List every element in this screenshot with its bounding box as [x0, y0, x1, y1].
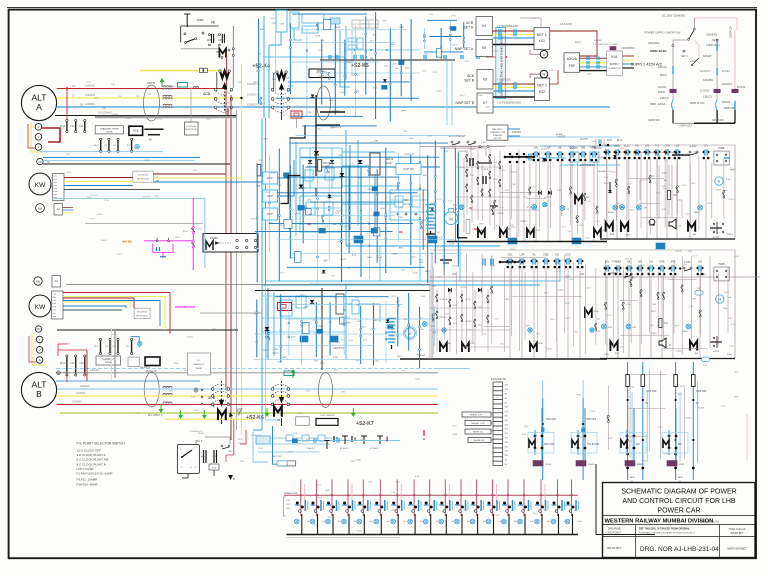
- terminal tick B: [53, 299, 57, 301]
- svg-text:PS4: PS4: [136, 413, 140, 415]
- blue branch down: [379, 246, 381, 281]
- svg-text:M: M: [449, 217, 453, 222]
- terminal strip B: [52, 291, 64, 319]
- svg-text:1B2: 1B2: [505, 442, 508, 444]
- wire: [280, 294, 282, 363]
- svg-text:A-5B: A-5B: [735, 255, 740, 258]
- blue h top: [500, 136, 620, 138]
- svg-text:320A: 320A: [256, 184, 261, 187]
- top black bar: [320, 111, 345, 113]
- lamp column 18: [571, 480, 573, 517]
- bottom row baseline 2: [287, 537, 401, 539]
- aux contact small l2: [449, 299, 451, 301]
- svg-text:H B C FUSE: H B C FUSE: [77, 467, 94, 471]
- svg-text:320A0P: 320A0P: [703, 55, 712, 58]
- svg-text:6D6Q: 6D6Q: [157, 119, 162, 121]
- meter loop yellow B: [32, 334, 46, 365]
- rladder1 rail: [600, 144, 735, 146]
- svg-text:1206201: 1206201: [85, 93, 96, 97]
- riser bundle yellow wire: [241, 64, 243, 435]
- top cluster connectors: [423, 55, 425, 59]
- svg-text:2F18: 2F18: [331, 275, 335, 277]
- wire: [292, 13, 367, 15]
- switch blade: [186, 39, 196, 43]
- svg-text:120601: 120601: [730, 169, 736, 171]
- svg-text:A NEXT: A NEXT: [557, 136, 566, 139]
- svg-text:1206: 1206: [691, 183, 695, 185]
- connector sym c: [498, 82, 500, 86]
- svg-text:12B4: 12B4: [630, 209, 634, 211]
- branch3 contact: [734, 101, 736, 110]
- wire to branches: [673, 40, 689, 45]
- svg-text:V: V: [38, 125, 40, 129]
- svg-text:12-K1: 12-K1: [126, 118, 131, 120]
- motor circle Tm1: [716, 295, 724, 303]
- control hwire: [526, 197, 546, 199]
- mini table grid: [352, 20, 378, 28]
- svg-text:V: V: [39, 348, 41, 352]
- rladder2 drop extra: [699, 275, 701, 359]
- inverter box 1: [256, 436, 270, 444]
- svg-text:3 B2: 3 B2: [286, 508, 290, 510]
- svg-text:VE: VE: [211, 21, 215, 25]
- breaker ACB-A1 W coil: [220, 71, 229, 78]
- svg-text:PS4: PS4: [568, 231, 572, 233]
- svg-text:21B1: 21B1: [338, 155, 342, 157]
- control hwire: [620, 334, 669, 336]
- svg-text:1206: 1206: [224, 92, 228, 94]
- wire: [334, 24, 336, 115]
- svg-text:1206303: 1206303: [76, 392, 86, 395]
- terminal: [301, 324, 303, 326]
- svg-text:E5IC: E5IC: [423, 175, 428, 177]
- lamp column 14: [507, 480, 509, 517]
- purple supply wire: [693, 18, 695, 30]
- svg-text:WD.PC.BCT: WD.PC.BCT: [731, 533, 744, 535]
- svg-text:ACB: ACB: [208, 396, 216, 400]
- blue module box b: [302, 26, 318, 33]
- speaker wires: [658, 165, 660, 219]
- blue filled sq 2: [428, 236, 437, 243]
- control wire: [622, 266, 624, 353]
- svg-text:21KT: 21KT: [399, 27, 405, 29]
- svg-text:21B1: 21B1: [557, 190, 561, 192]
- aux contact small l2: [487, 295, 489, 297]
- svg-text:320A: 320A: [174, 362, 179, 365]
- riser bundle gray wire: [236, 110, 238, 430]
- svg-text:ELB: ELB: [615, 353, 620, 355]
- breaker ACB-B2 pole 2: [271, 395, 274, 398]
- svg-text:E5IC: E5IC: [404, 319, 409, 321]
- relay TRA CON: [541, 408, 543, 460]
- svg-text:6D6Q: 6D6Q: [436, 199, 441, 201]
- svg-text:A-5B: A-5B: [285, 492, 290, 495]
- component box: [374, 228, 380, 236]
- wire: [457, 152, 459, 266]
- ladder2 black link: [500, 261, 520, 263]
- svg-text:PS4: PS4: [536, 333, 540, 335]
- wire: [365, 16, 367, 94]
- wattmeter KW B: [29, 295, 51, 317]
- fuse row2 B f1: [99, 338, 101, 340]
- control wire: [463, 158, 465, 233]
- estop contacts: [451, 141, 453, 143]
- svg-text:21B1: 21B1: [565, 318, 569, 320]
- svg-text:STARTER: STARTER: [493, 134, 503, 137]
- engine tb cell: [493, 417, 503, 421]
- svg-text:120601: 120601: [250, 219, 256, 221]
- terminal: [397, 318, 399, 320]
- svg-text:3B2Q: 3B2Q: [627, 440, 632, 442]
- blue wires upper right: [540, 145, 620, 147]
- aux contact small l2: [449, 317, 451, 319]
- svg-text:K2BC: K2BC: [347, 244, 353, 246]
- wire: [287, 266, 425, 268]
- aux contact: [616, 179, 618, 181]
- control wire: [549, 161, 551, 229]
- rladder1 baseline: [600, 238, 735, 240]
- svg-text:E STOP RESET: E STOP RESET: [449, 136, 466, 138]
- svg-text:12B4: 12B4: [496, 515, 500, 517]
- HIDB box 2: [714, 267, 729, 281]
- breaker ACB-A1 side wire: [216, 72, 218, 89]
- svg-text:CFB: CFB: [212, 456, 217, 458]
- top blue hwire: [264, 56, 345, 58]
- wire: [269, 155, 271, 252]
- svg-text:A-5B: A-5B: [281, 114, 286, 117]
- svg-text:12B4: 12B4: [67, 172, 71, 174]
- svg-text:1D11: 1D11: [607, 315, 611, 317]
- top blue wire 1: [269, 32, 281, 118]
- svg-text:MMB: MMB: [453, 434, 458, 436]
- blue filled sq 3: [508, 238, 517, 244]
- svg-text:60KVA: 60KVA: [567, 57, 578, 61]
- control wire: [560, 162, 562, 217]
- aux contact small: [477, 161, 479, 163]
- engine tb cell: [493, 435, 503, 439]
- terminal tick: [54, 181, 58, 183]
- control wire: [697, 382, 699, 463]
- control wire: [518, 149, 520, 237]
- coil LOP l1: [527, 229, 534, 238]
- terminal: [355, 74, 357, 76]
- red excl mark: [423, 430, 425, 436]
- svg-text:PS1 2: PS1 2: [297, 413, 303, 415]
- svg-text:6D6Q: 6D6Q: [460, 95, 465, 97]
- engine tb cell: [493, 395, 503, 399]
- svg-text:MMB 12 K04: MMB 12 K04: [690, 102, 705, 105]
- switch contact a: [184, 33, 186, 35]
- terminal: [343, 309, 345, 311]
- svg-text:1CACB: 1CACB: [355, 359, 362, 362]
- svg-text:BATT 110V: BATT 110V: [272, 455, 282, 458]
- svg-text:PB2: PB2: [216, 51, 221, 54]
- svg-text:WORTSCHOJBCT: WORTSCHOJBCT: [727, 549, 747, 551]
- wire: [373, 303, 375, 365]
- svg-text:ENGINE OFF: ENGINE OFF: [473, 440, 485, 442]
- trb wires: [542, 380, 544, 398]
- terminal: [266, 332, 268, 334]
- red elbow thick: [42, 128, 60, 142]
- green arrow dn 3: [266, 408, 268, 413]
- wire: [440, 28, 442, 59]
- control wire: [649, 157, 651, 235]
- svg-text:6 O CLOCK PLANT A/B: 6 O CLOCK PLANT A/B: [77, 458, 109, 462]
- mid wire: [694, 40, 699, 58]
- control wire: [519, 258, 521, 351]
- svg-text:PS4: PS4: [148, 94, 152, 96]
- engine tb cell: [493, 382, 503, 386]
- engine tb cell: [493, 444, 503, 448]
- control wire: [605, 260, 607, 345]
- svg-text:1B2: 1B2: [505, 385, 508, 387]
- mid rail wire right: [430, 276, 760, 278]
- svg-text:st OFF: st OFF: [683, 261, 691, 264]
- meter V b2: [36, 347, 43, 354]
- terminal: [449, 34, 451, 36]
- svg-text:1CACB: 1CACB: [675, 250, 682, 253]
- svg-text:1CACB: 1CACB: [698, 406, 705, 409]
- svg-text:WPP: WPP: [267, 195, 273, 198]
- mid rail black seg: [255, 290, 430, 292]
- coil terminal dots: [221, 56, 223, 58]
- svg-text:CHDB 12-K1: CHDB 12-K1: [706, 44, 720, 47]
- svg-text:2CP: 2CP: [383, 21, 388, 23]
- control wire: [648, 370, 650, 452]
- svg-text:+ 10 FK20/25/52-A1M: + 10 FK20/25/52-A1M: [497, 102, 520, 105]
- title block column divider left: [635, 525, 637, 558]
- svg-text:PS4: PS4: [429, 14, 433, 16]
- terminal tick: [54, 194, 58, 196]
- svg-text:A-5B: A-5B: [415, 475, 420, 478]
- svg-text:SUPPLY: SUPPLY: [609, 62, 619, 66]
- aux contact small l2: [436, 311, 438, 313]
- wire bundle right of psu: [335, 72, 420, 74]
- diode: [322, 270, 326, 273]
- wire k4-net blue: [493, 37, 535, 39]
- control wire: [664, 157, 666, 227]
- svg-text:Q: Q: [190, 467, 192, 469]
- wire: [321, 40, 323, 105]
- svg-text:6D6Q: 6D6Q: [361, 439, 366, 441]
- control wire: [491, 255, 493, 344]
- control wire: [570, 155, 572, 225]
- wire red connector down: [296, 118, 298, 128]
- svg-text:1D11: 1D11: [306, 439, 310, 441]
- svg-text:21 MCQ: 21 MCQ: [700, 90, 709, 93]
- current transformer coil phase 1: [163, 86, 172, 88]
- selector aux AVB: [203, 450, 205, 463]
- svg-text:21-K7: 21-K7: [445, 314, 450, 316]
- svg-text:+ 10CF20/25: + 10CF20/25: [497, 79, 512, 82]
- control wire: [690, 256, 692, 338]
- breaker ACB-A2 pole 3: [271, 106, 274, 109]
- terminal: [400, 72, 402, 74]
- svg-text:PS4: PS4: [483, 334, 486, 336]
- wire: [255, 231, 393, 233]
- blue net hwires: [342, 151, 395, 153]
- ladder2 baseline: [400, 358, 607, 360]
- blue cluster2 vert a: [267, 288, 269, 360]
- breaker ACB-A2 arrow: [279, 83, 284, 90]
- relay coil PB2: [219, 49, 226, 58]
- wire: [258, 333, 405, 335]
- blue grid wire a: [340, 30, 350, 87]
- control wire: [556, 261, 558, 342]
- contact pair: [268, 333, 270, 335]
- circleX APB1: [613, 205, 618, 210]
- circleX FAULT: [698, 205, 703, 210]
- svg-text:6D6Q: 6D6Q: [206, 119, 211, 121]
- svg-text:6DF19: 6DF19: [386, 158, 394, 161]
- svg-text:A-5B: A-5B: [352, 253, 357, 256]
- control wire: [503, 268, 505, 352]
- control wire: [711, 163, 713, 219]
- svg-text:21B2Q1: 21B2Q1: [703, 96, 712, 99]
- wire: [343, 296, 345, 355]
- svg-text:X304: X304: [663, 189, 667, 191]
- engine tb cell: [493, 452, 503, 456]
- svg-text:PS4: PS4: [359, 178, 363, 180]
- wire kw blue: [64, 185, 133, 187]
- aux contact: [584, 193, 586, 195]
- svg-text:14T: 14T: [505, 190, 509, 192]
- svg-text:2D16: 2D16: [391, 254, 396, 256]
- blue net c: [374, 175, 376, 230]
- aux contact: [432, 314, 434, 316]
- branch2 wire: [716, 51, 718, 68]
- svg-text:K3: K3: [277, 418, 281, 422]
- svg-text:H: H: [669, 344, 671, 347]
- aux hwires l2: [430, 307, 490, 309]
- terminal: [360, 328, 362, 330]
- svg-text:WPP: WPP: [267, 177, 273, 180]
- wire: [290, 61, 380, 63]
- svg-text:110V: 110V: [419, 262, 424, 264]
- svg-text:1206: 1206: [259, 160, 263, 162]
- svg-text:1B3: 1B3: [505, 389, 508, 391]
- terminal: [376, 194, 378, 196]
- svg-text:2D16: 2D16: [433, 72, 438, 74]
- svg-text:HQ: HQ: [399, 231, 403, 234]
- engine tb cell: [493, 430, 503, 434]
- wire k6-net2 yellow: [493, 87, 535, 89]
- svg-text:6D6Q: 6D6Q: [656, 192, 661, 194]
- svg-text:ACB: ACB: [466, 21, 474, 25]
- wire: [293, 41, 396, 43]
- meter F0: [37, 158, 43, 164]
- svg-text:B2 RACK: B2 RACK: [370, 447, 379, 450]
- black box B: [145, 357, 160, 366]
- svg-text:1206: 1206: [734, 372, 738, 374]
- blue module box a: [302, 14, 324, 23]
- branch2 contact top: [716, 41, 718, 52]
- rladder1 sw off: [689, 151, 691, 153]
- control wire: [630, 258, 632, 344]
- breaker ACB-B2 arrow: [281, 381, 283, 401]
- trf-k44 wire blue: [580, 66, 607, 68]
- control wire: [676, 155, 678, 215]
- wire: [301, 156, 440, 158]
- wire: [385, 148, 387, 273]
- black diode rl: [608, 190, 612, 193]
- svg-text:DRG. NOR AJ-LHB-231-04: DRG. NOR AJ-LHB-231-04: [640, 546, 719, 553]
- svg-text:31BO: 31BO: [727, 234, 733, 236]
- svg-text:ACB: ACB: [630, 476, 635, 479]
- engine tb cell: [493, 461, 503, 465]
- svg-text:MPS2/2042: MPS2/2042: [136, 315, 148, 317]
- terminal strip teal B: [284, 371, 294, 376]
- rladder1 drop wire: [646, 159, 648, 240]
- svg-text:MMB: MMB: [479, 224, 484, 226]
- switch box top wire: [181, 25, 219, 27]
- contact pair: [397, 300, 399, 302]
- blue hwire f0: [43, 157, 200, 159]
- svg-text:FB RD: FB RD: [465, 321, 472, 323]
- svg-text:E5IC: E5IC: [419, 260, 424, 262]
- svg-text:110V: 110V: [409, 138, 414, 140]
- blue cluster2 vert b: [273, 292, 275, 356]
- meter loop red: [28, 124, 35, 148]
- svg-text:3B2: 3B2: [658, 156, 661, 158]
- black stub fdl: [397, 182, 399, 190]
- engine tb cell: [493, 400, 503, 404]
- rladder1 drop wire: [676, 159, 678, 240]
- ladder1 drop wire: [535, 161, 537, 242]
- engine tb cell: [493, 386, 503, 390]
- svg-text:1CACB: 1CACB: [96, 213, 103, 216]
- lamp column 11: [460, 480, 462, 517]
- svg-text:WPP: WPP: [264, 139, 269, 141]
- crimson drop to selector: [233, 420, 235, 455]
- svg-text:1D11: 1D11: [317, 484, 321, 486]
- magenta vwire: [192, 198, 194, 270]
- branch1 black drop: [672, 110, 674, 123]
- svg-text:K44: K44: [611, 55, 617, 59]
- blue net b: [357, 140, 359, 226]
- aux contact: [596, 206, 598, 208]
- aux contact: [608, 415, 610, 417]
- svg-text:320A: 320A: [105, 357, 110, 360]
- svg-text:SET B: SET B: [464, 79, 474, 83]
- title block column divider right: [719, 525, 721, 558]
- svg-text:320B: 320B: [238, 439, 243, 441]
- svg-text:13B2: 13B2: [197, 18, 204, 22]
- lightblue box small: [277, 461, 287, 466]
- svg-text:A-5B: A-5B: [330, 127, 335, 130]
- svg-text:NET 2: NET 2: [712, 39, 719, 42]
- chain T sym: [325, 440, 330, 442]
- svg-text:2CPR1: 2CPR1: [544, 197, 552, 199]
- terminal: [365, 33, 367, 35]
- lamp column 16: [540, 480, 542, 517]
- fuse F18: [75, 119, 77, 121]
- inverter caps: [333, 436, 335, 442]
- terminal: [360, 234, 362, 236]
- cyan trunk right: [346, 130, 500, 246]
- aux contact: [640, 290, 642, 292]
- svg-text:1206: 1206: [675, 351, 679, 353]
- svg-text:21-K7: 21-K7: [373, 88, 379, 90]
- control wire: [481, 165, 483, 220]
- svg-text:ML: ML: [149, 138, 153, 141]
- cluster2 hwires: [262, 295, 336, 297]
- terminal: [397, 335, 399, 337]
- cluster2 wire right: [344, 304, 380, 322]
- wire: [291, 115, 363, 117]
- wire: [277, 192, 418, 194]
- svg-text:P.S. PLANT SELECTOR SWITCH: P.S. PLANT SELECTOR SWITCH: [77, 442, 126, 446]
